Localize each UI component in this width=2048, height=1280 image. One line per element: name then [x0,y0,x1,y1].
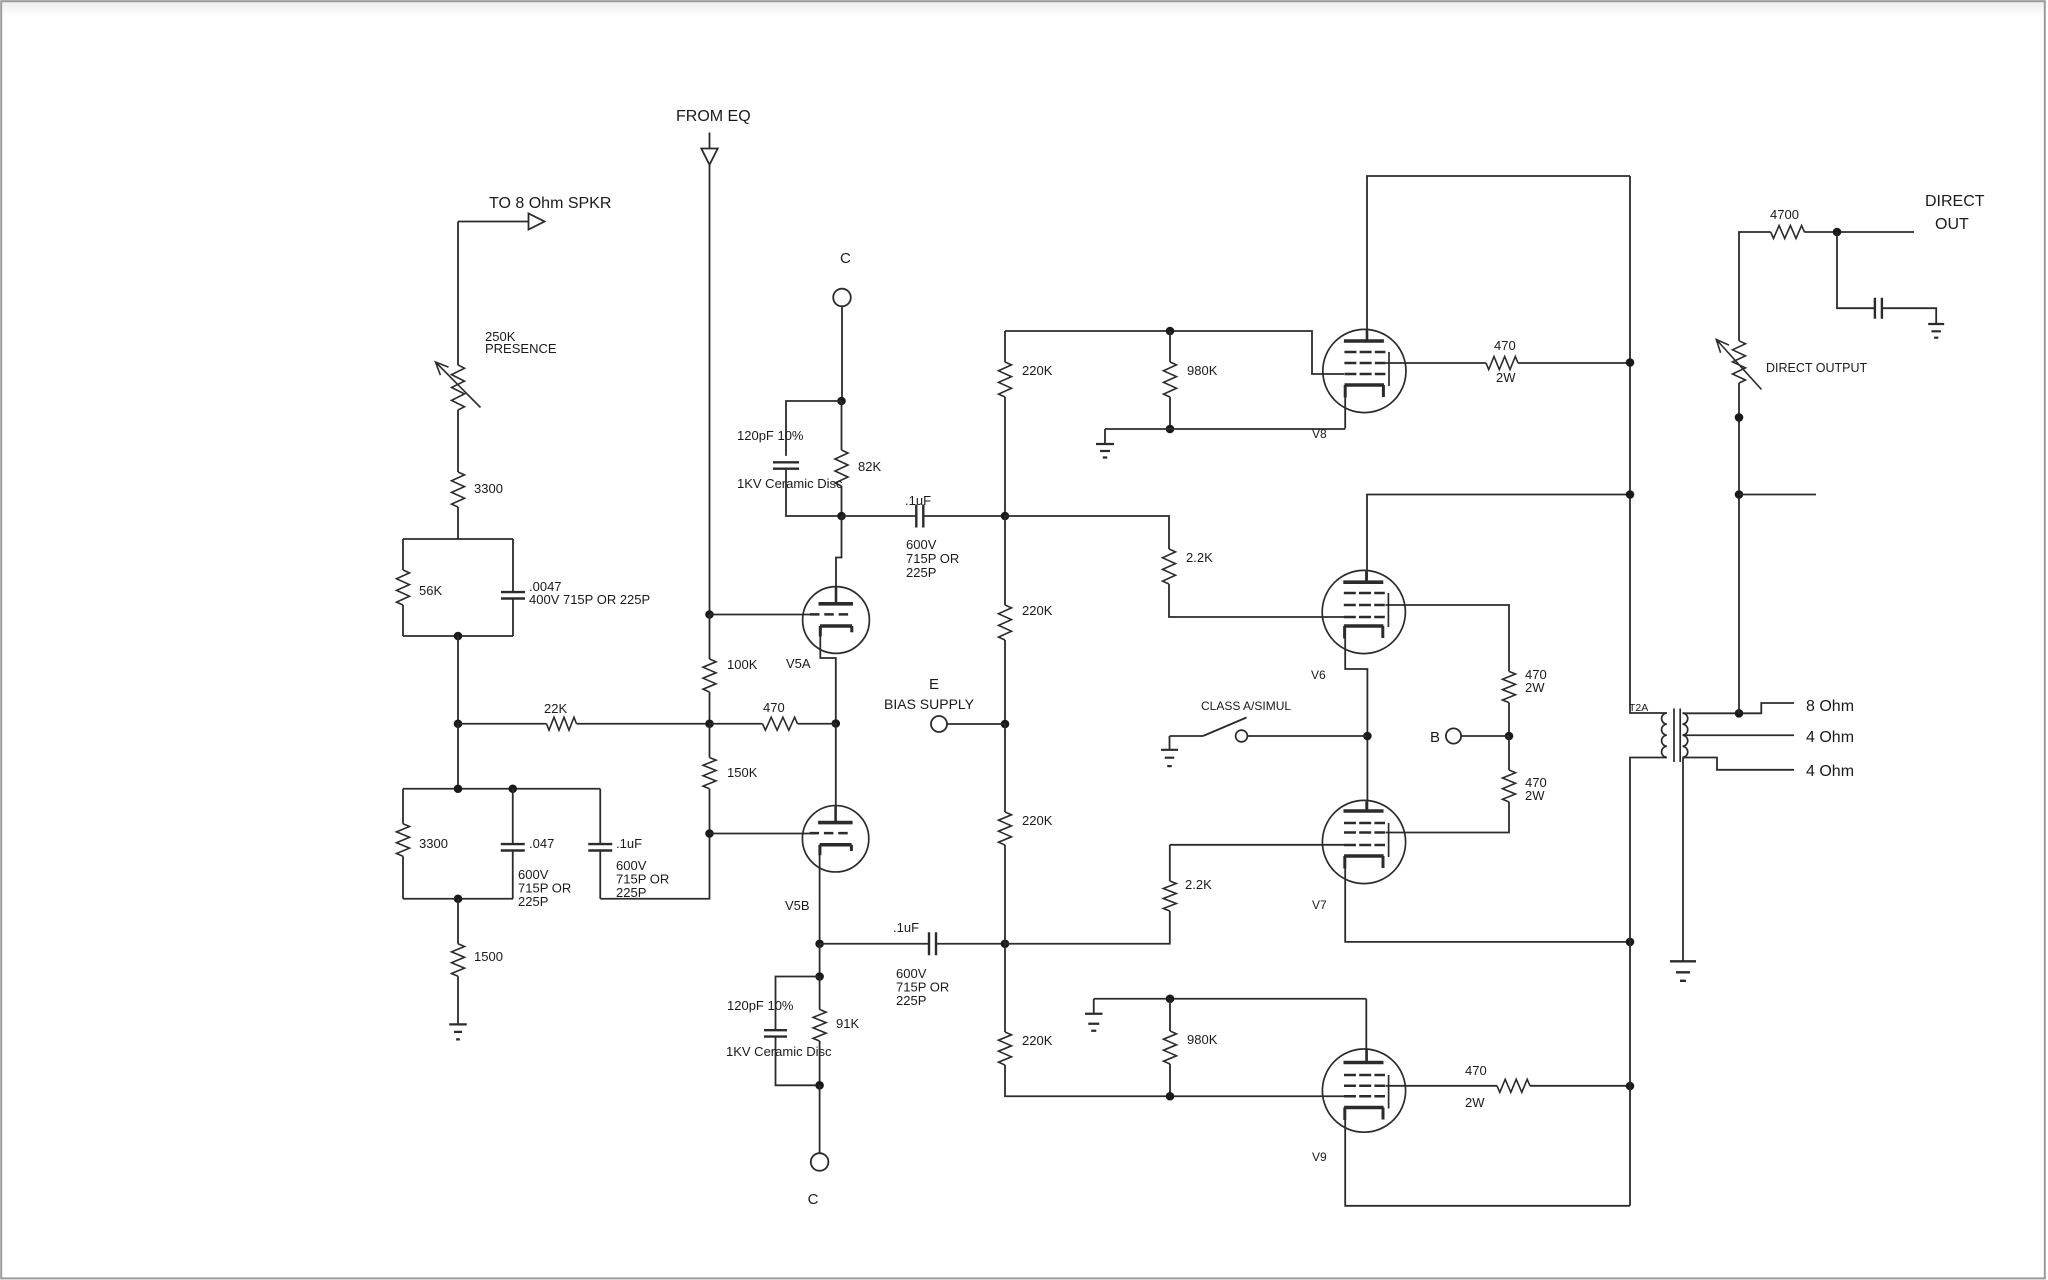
resistor 980K (2) [1164,1031,1177,1064]
resistor 470 2W (V7 screen) [1503,770,1516,802]
svg-text:715P OR: 715P OR [906,551,959,566]
wire 91K branch top [819,944,821,977]
wire from-eq vertical [709,165,711,615]
svg-text:600V: 600V [906,537,937,552]
arrow head (open triangle) from EQ [701,149,717,165]
node class switch junction [1363,732,1372,741]
wire V8 screen lead [1386,362,1487,364]
ground (direct out) [1928,324,1944,338]
ground (secondary) [1670,961,1696,981]
wire secondary top tap (8 Ohm) [1683,703,1795,713]
node V5B cathode / coupling 2 [815,939,824,948]
wire 82K top lead [841,401,843,450]
wire to speaker arrow [458,221,529,223]
svg-text:100K: 100K [727,657,758,672]
wire switch to V6/V7 node [1247,735,1367,737]
wire 2.2K1 branch [1005,516,1169,549]
capacitor .0047 [501,592,525,598]
svg-text:82K: 82K [858,459,881,474]
wire V5A cathode lead [820,637,836,724]
wire coupling cap to center column [924,515,1006,517]
wire 82K bottom lead [841,486,843,516]
resistor 91K [813,1010,826,1042]
resistor 220K (4) [999,1032,1012,1065]
wire box1 left edge [402,539,404,636]
node 82K top [837,397,846,406]
node bias supply junction [1001,720,1010,729]
wire B node to 470 (V7 screen) [1508,736,1510,770]
svg-text:FROM EQ: FROM EQ [676,108,751,125]
node 82K bottom / coupling [837,512,846,521]
svg-text:91K: 91K [836,1016,859,1031]
svg-text:1KV Ceramic Disc: 1KV Ceramic Disc [726,1044,832,1059]
wire 220K2 to bias node [1004,640,1006,724]
svg-text:2.2K: 2.2K [1186,550,1213,565]
wire to V5A grid [710,614,811,616]
svg-text:OUT: OUT [1935,216,1969,233]
node V5A grid junction [705,610,714,619]
wire cap to ground arm [1882,308,1936,324]
wire secondary ground drop [1682,758,1684,962]
ground (class switch) [1161,750,1178,766]
svg-text:470: 470 [763,700,785,715]
resistor 2.2K (1) [1163,549,1176,584]
tube V9 (pentode) [1322,1049,1405,1132]
wire 120pF branch top [786,401,842,456]
wire 120pF branch 2 bottom [776,1037,820,1086]
resistor 100K [703,659,716,692]
ground (V9 plate rail) [1085,1014,1103,1031]
svg-text:120pF 10%: 120pF 10% [737,428,804,443]
node V7 cathode to primary-bottom rail [1626,938,1635,947]
wire 220K3 to coupling node 2 [1004,845,1006,944]
wire 150K to V5B grid junction [709,789,711,834]
node center column coupling 2 [1001,939,1010,948]
resistor 22K [547,717,577,730]
wire V7 grid rail [1170,844,1344,846]
resistor 1500 [452,944,465,977]
wire primary bottom lead [1630,758,1667,1206]
resistor 56K [397,570,410,605]
wire ground stub (V8 rail) [1104,429,1106,444]
wire pot to resistor 3300 [457,410,459,472]
resistor 2.2K (2) [1163,881,1176,911]
node 980K1 top [1166,327,1175,336]
wire switch left post [1170,735,1204,737]
node center coupling 1 [1001,512,1010,521]
wire 4700 to direct out [1804,231,1914,233]
wire from-eq to 100K [709,615,711,660]
resistor 470 2W (V6 screen) [1503,671,1516,702]
wire 980K2 leads [1169,999,1171,1097]
wire 1500 to ground [457,976,459,1024]
svg-text:220K: 220K [1022,363,1053,378]
wire V8 cathode lead [1344,396,1346,429]
wire 3300 to box top [457,507,459,539]
node box2 top left [454,784,463,793]
tube V5A (triode) [803,587,870,654]
wire 980K1 leads [1169,331,1171,429]
wire V9 plate rail [1094,998,1367,1000]
wire speaker node down to presence pot [457,222,459,366]
svg-text:980K: 980K [1187,1032,1218,1047]
capacitor 120pF (V5A) [773,462,799,468]
wire bias terminal to column [947,723,1005,725]
capacitor .047 [501,844,525,850]
svg-text:225P: 225P [616,885,646,900]
svg-text:1500: 1500 [474,949,503,964]
node direct out junction [1833,228,1842,237]
resistor 220K (1) [999,362,1012,397]
wire 2.2K2 top lead [1169,845,1171,881]
node box2 bottom [454,894,463,903]
svg-text:3300: 3300 [419,836,448,851]
wire V9 plate lead [1365,999,1367,1063]
terminal B [1446,728,1461,743]
wire 100K to bias rail [709,692,711,724]
svg-text:V8: V8 [1312,427,1327,441]
node secondary top / direct pot [1735,709,1744,718]
wire 120pF branch bottom [786,469,842,516]
wire 120pF branch 2 top [776,977,820,1031]
node box2 top cap branch [508,784,517,793]
svg-text:4700: 4700 [1770,207,1799,222]
resistor 3300 (presence top) [452,472,465,507]
svg-text:.1uF: .1uF [905,493,931,508]
svg-text:2W: 2W [1525,680,1545,695]
svg-text:TO 8 Ohm SPKR: TO 8 Ohm SPKR [489,195,611,212]
switch blade (CLASS A/SIMUL) [1203,718,1247,737]
wire ground stub (V9 rail) [1093,999,1095,1014]
node V8 screen junction on plate rail [1626,358,1635,367]
node V6 plate junction on plate rail [1626,490,1635,499]
svg-text:980K: 980K [1187,363,1218,378]
svg-text:470: 470 [1494,338,1516,353]
svg-text:22K: 22K [544,701,567,716]
svg-text:220K: 220K [1022,1033,1053,1048]
svg-text:V7: V7 [1312,898,1327,912]
capacitor .1uF (V5B coupling) [929,932,936,955]
wire box2 top edge [403,788,600,790]
svg-text:220K: 220K [1022,813,1053,828]
wire V9 cathode lead [1345,1120,1630,1206]
wire secondary bottom tap (4 Ohm) [1683,758,1795,770]
svg-text:225P: 225P [906,565,936,580]
wire 470 rail left [710,723,763,725]
resistor 3300 (feedback box) [397,824,410,857]
wire to V5B grid [710,833,817,835]
wire box2 bottom to grid node [600,834,709,899]
terminal C top [833,289,851,307]
switch contact circle [1236,730,1248,742]
wire 220K4 to V9 grid rail [1005,1065,1344,1096]
wire V6 screen resistor to B node [1508,703,1510,736]
transformer T2A secondary winding [1683,713,1688,757]
svg-text:400V 715P OR 225P: 400V 715P OR 225P [529,592,650,607]
wire V5B plate lead [835,724,837,808]
svg-text:C: C [840,250,851,267]
wire coupling node 2 to 220K4 [1004,944,1006,1032]
wire coupling node to 220K2 [1004,516,1006,605]
wire V5A plate lead [836,516,842,590]
wire box2 bottom edge [403,898,513,900]
node 980K2 top [1166,994,1175,1003]
wire to C bottom terminal [819,1085,821,1153]
terminal C bottom [811,1153,829,1171]
svg-text:3300: 3300 [474,481,503,496]
capacitor direct out [1875,298,1882,319]
wire V9 screen lead [1386,1085,1498,1087]
wire 470 rail right [798,723,836,725]
wire pot top to 4700 [1739,232,1771,341]
wire V8 screen to plate rail [1518,362,1630,364]
resistor 470 2W (V9 screen) [1497,1079,1530,1092]
wire center column top corner [1004,331,1006,362]
wire V5B cathode lead [819,855,821,944]
svg-text:470: 470 [1465,1063,1487,1078]
resistor 220K (3) [999,812,1012,845]
wire V6 cathode to V7 plate [1345,638,1367,811]
svg-text:4 Ohm: 4 Ohm [1806,763,1854,780]
wire V8 plate to top rail [1367,176,1630,341]
svg-text:DIRECT: DIRECT [1925,193,1985,210]
wire coupling rail to .1uF cap [842,515,917,517]
node 980K1 bottom [1166,425,1175,434]
wire coupling cap 2 to center column [936,943,1005,945]
svg-text:E: E [929,676,939,693]
svg-text:1KV Ceramic Disc: 1KV Ceramic Disc [737,476,843,491]
resistor 470 2W (V8 screen) [1486,357,1518,370]
resistor 150K [703,758,716,789]
svg-text:V6: V6 [1311,668,1326,682]
wire B to junction [1461,735,1509,737]
svg-text:V5A: V5A [786,656,811,671]
wire coupling rail 2 to cap [820,943,929,945]
wire top grid rail [1005,331,1344,374]
svg-text:2W: 2W [1525,788,1545,803]
svg-text:PRESENCE: PRESENCE [485,341,557,356]
resistor 980K (1) [1164,362,1177,397]
wire .1uF branch [599,789,601,899]
wire stub right of pot column [1739,494,1816,496]
svg-text:120pF 10%: 120pF 10% [727,998,794,1013]
tube V8 (pentode) [1323,329,1406,412]
svg-text:.1uF: .1uF [616,836,642,851]
wire 2.2K2 bottom lead [1005,911,1170,944]
svg-text:2.2K: 2.2K [1185,877,1212,892]
wire V8 cathode rail [1105,428,1345,430]
wire 220K1 to coupling node [1004,397,1006,516]
capacitor .1uF (feedback) [588,844,612,850]
svg-text:150K: 150K [727,765,758,780]
svg-text:220K: 220K [1022,603,1053,618]
wire C to 82K node [841,306,843,401]
svg-text:V5B: V5B [785,898,810,913]
node V5A cathode / 470 [832,719,841,728]
wire primary top lead [1630,176,1667,713]
svg-text:B: B [1430,729,1440,746]
wire box2 to 1500 [457,899,459,944]
svg-text:BIAS SUPPLY: BIAS SUPPLY [884,696,975,712]
potentiometer 250K PRESENCE [452,365,465,410]
wire box1 bottom edge [403,635,513,637]
wire bias node to 220K3 [1004,724,1006,812]
wire 91K bottom lead [819,1041,821,1085]
wire left branch to box2 [457,724,459,789]
node bias rail left [705,719,714,728]
node box1 bottom [454,632,463,641]
svg-text:V9: V9 [1312,1150,1327,1164]
svg-text:2W: 2W [1496,370,1516,385]
node 91K top [815,972,824,981]
svg-text:56K: 56K [419,583,442,598]
resistor 220K (2) [999,605,1012,640]
svg-text:DIRECT OUTPUT: DIRECT OUTPUT [1766,361,1868,375]
svg-text:C: C [808,1191,819,1208]
node 91K bottom [815,1081,824,1090]
node V9 screen junction [1626,1082,1635,1091]
svg-text:T2A: T2A [1629,702,1648,714]
svg-text:.047: .047 [529,836,554,851]
ground (V8 cathode rail) [1096,444,1114,458]
capacitor .1uF (V5A coupling) [916,505,923,528]
wire V7 cathode lead [1345,868,1630,942]
wire secondary middle tap (4 Ohm) [1683,734,1795,736]
wire box1 to 22K rail [457,636,459,724]
node direct pot lower junction [1735,490,1744,499]
wire V7 screen resistor lead [1386,802,1510,833]
svg-text:.1uF: .1uF [893,920,919,935]
svg-text:CLASS A/SIMUL: CLASS A/SIMUL [1201,699,1291,713]
wire .047 branch [512,789,514,899]
node direct pot mid junction [1735,413,1744,422]
wire direct pot column [1738,383,1740,713]
wire V9 screen to primary-bottom rail [1530,1085,1630,1087]
svg-text:225P: 225P [518,894,548,909]
resistor 82K [835,450,848,486]
svg-text:8 Ohm: 8 Ohm [1806,698,1854,715]
wire 22K rail right segment [577,723,710,725]
ground (left branch) [449,1024,467,1039]
node V5B grid junction [705,829,714,838]
transformer T2A primary winding [1662,713,1667,757]
resistor 470 (V5A cathode) [763,717,798,730]
tube V5B (triode) [802,806,868,872]
node 22K rail left [454,719,463,728]
tube V6 (pentode) [1322,570,1405,653]
wire box1 top edge [403,538,513,540]
node 980K2 bottom [1166,1092,1175,1101]
wire from-eq stub [709,133,711,149]
resistor 4700 [1771,226,1805,239]
wire 91K top lead [819,977,821,1010]
svg-text:225P: 225P [896,993,926,1008]
potentiometer DIRECT OUTPUT [1733,341,1746,383]
wire box2 left edge [402,789,404,899]
wire V6 plate rail [1367,495,1630,583]
wire 2.2K1 to V6 grid [1169,584,1344,617]
terminal E bias supply [931,716,947,732]
wire box1 right edge [512,539,514,636]
tube V7 (pentode) [1322,800,1405,883]
wire V6 screen lead [1386,605,1510,671]
wire 22K rail left segment [458,723,547,725]
svg-text:4 Ohm: 4 Ohm [1806,729,1854,746]
wire bias rail to 150K [709,724,711,758]
capacitor 120pF (V5B) [764,1030,787,1036]
node B junction [1505,732,1514,741]
wire switch ground stub [1169,736,1171,750]
svg-text:2W: 2W [1465,1095,1485,1110]
arrow head (open triangle) to speaker [529,214,545,230]
transformer T2A core [1674,709,1680,763]
wire direct out cap branch [1837,232,1875,308]
